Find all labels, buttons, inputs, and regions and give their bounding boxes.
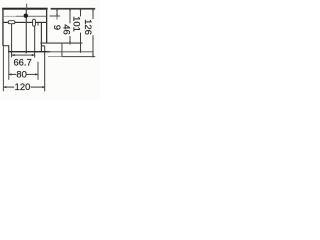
inner housing line right (66.7 extension) bbox=[34, 26, 35, 58]
svg-text:120: 120 bbox=[15, 81, 31, 92]
hanger bolt stub above ceiling bbox=[26, 4, 27, 8]
mounting plate line bbox=[3, 22, 46, 23]
lamp right edge vertical bbox=[61, 43, 62, 57]
svg-text:126: 126 bbox=[82, 19, 93, 35]
dimension 101 top arrowhead bbox=[80, 9, 82, 11]
left extension line (120 left / continues down) bbox=[3, 46, 4, 91]
right extension line (120 right) bbox=[44, 46, 45, 91]
dimension 120 line left segment bbox=[3, 87, 14, 88]
left step horizontal bbox=[3, 45, 10, 46]
bottom extension line (101 dim bottom reference) bbox=[47, 51, 93, 52]
lowest extension line (126 dim bottom reference) bbox=[48, 55, 62, 58]
dimension 9 bottom arrowhead bbox=[56, 14, 58, 16]
screw slot left (horizontal oval) bbox=[8, 21, 15, 24]
svg-text:46: 46 bbox=[61, 24, 72, 35]
dimension 120 line right segment bbox=[31, 87, 45, 88]
body right edge bbox=[46, 9, 47, 44]
dimension 101 vertical line upper bbox=[80, 9, 81, 17]
dimension 46 vertical line upper bbox=[70, 9, 71, 24]
right corner extension line (46 dim bottom reference) bbox=[40, 43, 82, 44]
dimension 66.7 right arrowhead bbox=[32, 54, 35, 56]
top extension line (9 dim lower reference) bbox=[50, 16, 61, 17]
dimension 101 bottom arrowhead bbox=[80, 50, 82, 52]
dimension 80 right arrowhead bbox=[35, 73, 38, 75]
svg-text:80: 80 bbox=[16, 68, 26, 79]
dimension 9 top arrowhead bbox=[56, 9, 58, 11]
left extension line (80 left) bbox=[8, 52, 9, 80]
dimension 80 line left segment bbox=[9, 74, 17, 75]
dimension 80 left arrowhead bbox=[9, 73, 12, 75]
inner wall right vertical bbox=[41, 23, 42, 52]
screw slot right (vertical oval) bbox=[33, 19, 36, 26]
center knob (black dot) bbox=[24, 14, 28, 18]
inner housing line left (66.7 extension) bbox=[11, 24, 12, 58]
center axis vertical line bbox=[26, 8, 27, 54]
ceiling line (fixture top plate) bbox=[2, 8, 47, 10]
svg-text:66.7: 66.7 bbox=[13, 56, 31, 67]
dimension 9 vertical line bbox=[57, 9, 58, 17]
body bottom line bbox=[8, 51, 50, 52]
right step horizontal bbox=[41, 45, 45, 46]
ceiling extension line (to right dimensions) bbox=[51, 8, 96, 10]
dimension 120 right arrowhead bbox=[42, 86, 45, 88]
dimension 126 vertical line upper bbox=[93, 9, 94, 20]
dimension 101 vertical line lower bbox=[80, 33, 81, 53]
body top thin line bbox=[3, 15, 16, 18]
left step vertical bbox=[8, 45, 9, 51]
dimension 46 vertical line lower bbox=[70, 36, 71, 45]
svg-text:101: 101 bbox=[71, 16, 82, 32]
dimension 120 left arrowhead bbox=[3, 86, 6, 88]
dimension 126 top arrowhead bbox=[92, 9, 94, 11]
dimension 66.7 left arrowhead bbox=[12, 54, 15, 56]
dimension 46 top arrowhead bbox=[69, 9, 71, 11]
dimension 126 bottom arrowhead bbox=[92, 55, 94, 57]
dimension 80 right extension line bbox=[38, 62, 39, 80]
dimension 66.7 line bbox=[12, 54, 35, 57]
screw tip stub below plate bbox=[38, 23, 39, 26]
body left edge bbox=[2, 9, 3, 46]
dimension 80 line right segment bbox=[27, 74, 39, 75]
dimension 46 bottom arrowhead bbox=[69, 41, 71, 43]
dimension 126 vertical line lower bbox=[93, 35, 94, 57]
